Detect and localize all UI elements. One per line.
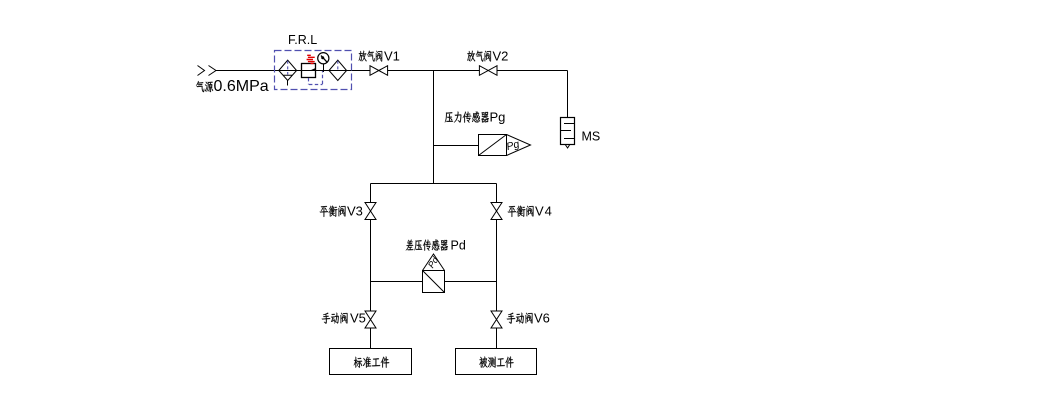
svg-text:0.6MPa: 0.6MPa <box>214 78 269 95</box>
svg-text:F.R.L: F.R.L <box>288 33 317 47</box>
svg-text:V2: V2 <box>493 49 509 64</box>
svg-text:V1: V1 <box>384 49 400 64</box>
svg-text:V5: V5 <box>350 311 366 326</box>
svg-text:Pg: Pg <box>490 110 506 125</box>
svg-text:V3: V3 <box>347 204 363 219</box>
svg-text:MS: MS <box>582 130 601 144</box>
svg-text:Pd: Pd <box>451 239 466 253</box>
svg-text:V4: V4 <box>535 204 553 219</box>
svg-text:V6: V6 <box>534 311 550 326</box>
